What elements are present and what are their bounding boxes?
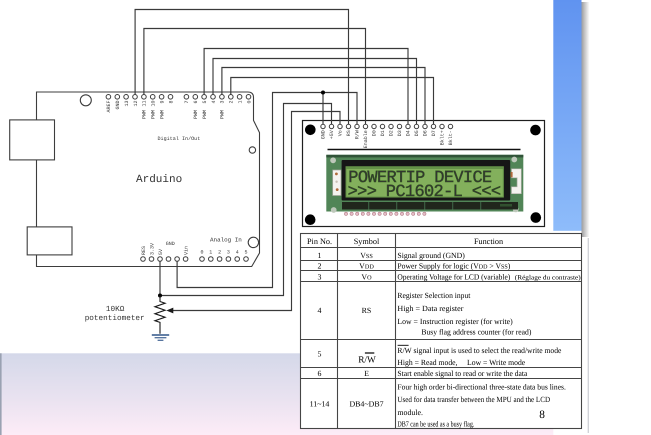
svg-text:D6: D6 xyxy=(423,130,429,136)
svg-text:RS: RS xyxy=(346,130,352,136)
svg-text:5: 5 xyxy=(202,101,208,104)
analog pin number labels xyxy=(200,250,247,256)
svg-text:8: 8 xyxy=(539,409,545,421)
potentiometer R1 10K xyxy=(155,296,165,334)
svg-text:Start enable signal to read or: Start enable signal to read or write the… xyxy=(397,369,527,378)
svg-text:Enable: Enable xyxy=(363,130,369,148)
wire GND to LCD GND and R/W xyxy=(177,93,357,288)
svg-text:D7: D7 xyxy=(431,130,437,136)
svg-text:5: 5 xyxy=(318,349,322,358)
svg-text:AREF: AREF xyxy=(106,101,112,113)
symbol column xyxy=(349,251,383,409)
wire pin3 to LCD D6 xyxy=(222,68,425,125)
PCB screw bottom-right xyxy=(513,207,519,213)
svg-text:E: E xyxy=(364,369,369,378)
svg-text:Power Supply for logic (VDD >: Power Supply for logic (VDD > VSS) xyxy=(397,261,510,270)
svg-text:RS: RS xyxy=(362,306,372,315)
svg-text:GND: GND xyxy=(115,101,121,110)
svg-text:PWM: PWM xyxy=(150,110,156,119)
PCB bottom solder strip xyxy=(342,202,518,210)
header pin dots row xyxy=(344,212,426,215)
svg-text:1: 1 xyxy=(318,251,322,260)
svg-text:8: 8 xyxy=(168,101,174,104)
LCD module photo: PCB xyxy=(326,155,523,212)
wiper arrowhead xyxy=(166,308,173,314)
svg-text:Function: Function xyxy=(474,237,503,246)
LCD board hole top-left xyxy=(305,125,316,136)
svg-text:D0: D0 xyxy=(372,130,378,136)
left connector tab xyxy=(333,170,341,196)
table header text xyxy=(307,237,503,246)
svg-text:4: 4 xyxy=(211,101,217,104)
Arduino analog pin headers xyxy=(200,257,249,262)
svg-text:0: 0 xyxy=(246,101,252,104)
wire pin12 to LCD RS xyxy=(135,10,348,125)
svg-text:Vin: Vin xyxy=(183,246,189,255)
svg-text:2: 2 xyxy=(229,101,235,104)
LCD bezel xyxy=(342,160,511,201)
mounting hole right upper xyxy=(249,147,255,153)
svg-text:1: 1 xyxy=(209,250,212,256)
Arduino digital pin labels xyxy=(106,101,252,120)
svg-text:PWM: PWM xyxy=(202,110,208,119)
svg-text:3: 3 xyxy=(318,273,322,282)
LCD pin header row xyxy=(321,124,453,128)
svg-text:10: 10 xyxy=(150,101,156,107)
wire pot wiper to LCD Vo xyxy=(171,112,341,311)
solder strip highlights xyxy=(368,202,512,210)
svg-text:VSS: VSS xyxy=(360,251,373,260)
PCB screw top-right xyxy=(511,157,517,163)
svg-text:R/W: R/W xyxy=(358,356,376,366)
svg-text:>>> PC1602-L <<<: >>> PC1602-L <<< xyxy=(348,183,501,202)
power connector xyxy=(27,227,72,255)
power pin labels xyxy=(141,243,190,255)
svg-text:module.: module. xyxy=(397,408,423,417)
svg-text:PWM: PWM xyxy=(159,110,165,119)
svg-text:1: 1 xyxy=(237,101,243,104)
svg-text:12: 12 xyxy=(133,101,139,107)
overline for R/W symbol xyxy=(365,352,374,354)
LCD glass screen xyxy=(346,167,503,197)
svg-text:GND: GND xyxy=(321,130,327,139)
USB connector xyxy=(10,120,55,160)
PCB screw top-left xyxy=(330,157,336,163)
wire pin11 to LCD Enable xyxy=(144,29,366,125)
svg-text:Digital In/Out: Digital In/Out xyxy=(158,136,201,142)
table right shadow line xyxy=(588,238,589,433)
ground xyxy=(152,335,169,340)
svg-text:3.3V: 3.3V xyxy=(149,243,155,255)
svg-text:Operating Voltage for LCD (var: Operating Voltage for LCD (variable) xyxy=(397,273,510,282)
function column text xyxy=(397,251,580,429)
bottom gradient panel xyxy=(0,353,553,435)
LCD board hole bottom-left xyxy=(305,214,316,225)
svg-text:D2: D2 xyxy=(389,130,395,136)
svg-text:Signal ground (GND): Signal ground (GND) xyxy=(397,251,465,260)
svg-text:9: 9 xyxy=(159,101,165,104)
pin table xyxy=(301,234,582,429)
svg-text:6: 6 xyxy=(318,369,322,378)
svg-text:PWM: PWM xyxy=(220,110,226,119)
gradient panel left edge xyxy=(0,353,2,435)
LCD carrier board xyxy=(303,121,545,227)
LCD board hole bottom-right xyxy=(531,212,542,223)
svg-text:Vo: Vo xyxy=(338,130,344,136)
svg-text:10KΩ: 10KΩ xyxy=(106,305,125,314)
svg-text:Four high order bi-directional: Four high order bi-directional three-sta… xyxy=(397,383,566,392)
svg-text:Arduino: Arduino xyxy=(136,174,182,186)
svg-text:RES: RES xyxy=(141,246,147,255)
mounting hole top-left xyxy=(80,95,91,106)
svg-text:7: 7 xyxy=(184,101,190,104)
pin number column xyxy=(310,251,330,409)
svg-text:Bklt-: Bklt- xyxy=(448,130,454,145)
svg-text:Symbol: Symbol xyxy=(354,237,380,246)
wire 5V to LCD +5V xyxy=(160,104,332,296)
PCB top dark strip xyxy=(326,155,523,158)
svg-text:GND: GND xyxy=(166,241,175,247)
svg-text:4: 4 xyxy=(318,306,322,315)
svg-text:D1: D1 xyxy=(380,130,386,136)
junction node 5V/pot xyxy=(158,294,162,298)
svg-text:0: 0 xyxy=(200,250,203,256)
Arduino power pin headers xyxy=(141,257,188,262)
svg-text:D4: D4 xyxy=(406,130,412,136)
LCD screen top shade xyxy=(346,167,503,169)
wire pin5 to LCD D4 xyxy=(204,49,408,125)
svg-text:R/W signal input is used to se: R/W signal input is used to select the r… xyxy=(397,346,561,355)
junction node LCD GND xyxy=(321,91,325,95)
Arduino digital pin headers xyxy=(106,95,251,100)
svg-text:Busy flag address counter (for: Busy flag address counter (for read) xyxy=(421,328,531,337)
Arduino board outline xyxy=(37,92,260,267)
right blue bar xyxy=(553,0,581,231)
svg-text:High = Data register: High = Data register xyxy=(397,304,463,313)
svg-text:3: 3 xyxy=(220,101,226,104)
svg-text:Bklt+: Bklt+ xyxy=(440,130,446,145)
svg-text:2: 2 xyxy=(218,250,221,256)
svg-text:Analog In: Analog In xyxy=(210,237,242,244)
svg-text:+5V: +5V xyxy=(329,130,335,139)
wire branch to LCD GND pin xyxy=(322,93,324,125)
svg-text:(Réglage du contraste): (Réglage du contraste) xyxy=(515,274,581,281)
svg-text:High = Read mode, Low = Wr: High = Read mode, Low = Write mode xyxy=(397,358,525,367)
svg-text:DB4~DB7: DB4~DB7 xyxy=(349,400,383,409)
svg-text:PWM: PWM xyxy=(193,110,199,119)
svg-text:D3: D3 xyxy=(397,130,403,136)
PCB screw bottom-left xyxy=(331,207,337,213)
svg-text:DB7 can be used as a busy flag: DB7 can be used as a busy flag. xyxy=(397,420,474,429)
svg-text:Register Selection input: Register Selection input xyxy=(397,291,471,300)
svg-text:R/W: R/W xyxy=(355,130,361,139)
svg-text:4: 4 xyxy=(236,250,239,256)
svg-text:3: 3 xyxy=(227,250,230,256)
svg-text:VDD: VDD xyxy=(359,261,374,270)
right tab solder dot xyxy=(511,172,513,177)
blue bar shadow xyxy=(582,2,590,237)
svg-text:11~14: 11~14 xyxy=(310,400,330,409)
svg-text:5V: 5V xyxy=(158,249,164,255)
svg-text:D5: D5 xyxy=(414,130,420,136)
svg-text:13: 13 xyxy=(124,101,130,107)
wire pin4 to LCD D5 xyxy=(213,59,417,125)
LCD board hole top-right xyxy=(530,125,541,136)
svg-text:Pin No.: Pin No. xyxy=(307,237,332,246)
svg-text:Used for data transfer between: Used for data transfer between the MPU a… xyxy=(397,395,550,404)
overline for R/W in function row 5 xyxy=(398,344,409,346)
svg-text:6: 6 xyxy=(193,101,199,104)
svg-text:5: 5 xyxy=(244,250,247,256)
svg-text:VO: VO xyxy=(361,273,372,282)
svg-text:Low = Instruction register (fo: Low = Instruction register (for write) xyxy=(397,317,513,326)
svg-text:PWM: PWM xyxy=(142,110,148,119)
svg-text:11: 11 xyxy=(142,101,148,107)
wire pin2 to LCD D7 xyxy=(231,78,434,125)
LCD separator line xyxy=(328,149,521,151)
mounting hole right lower xyxy=(248,237,258,247)
LCD pin labels xyxy=(321,130,455,148)
left tab solder dots xyxy=(335,173,338,176)
svg-text:2: 2 xyxy=(318,261,322,270)
svg-text:potentiometer: potentiometer xyxy=(85,314,145,323)
right connector tab xyxy=(512,169,522,194)
